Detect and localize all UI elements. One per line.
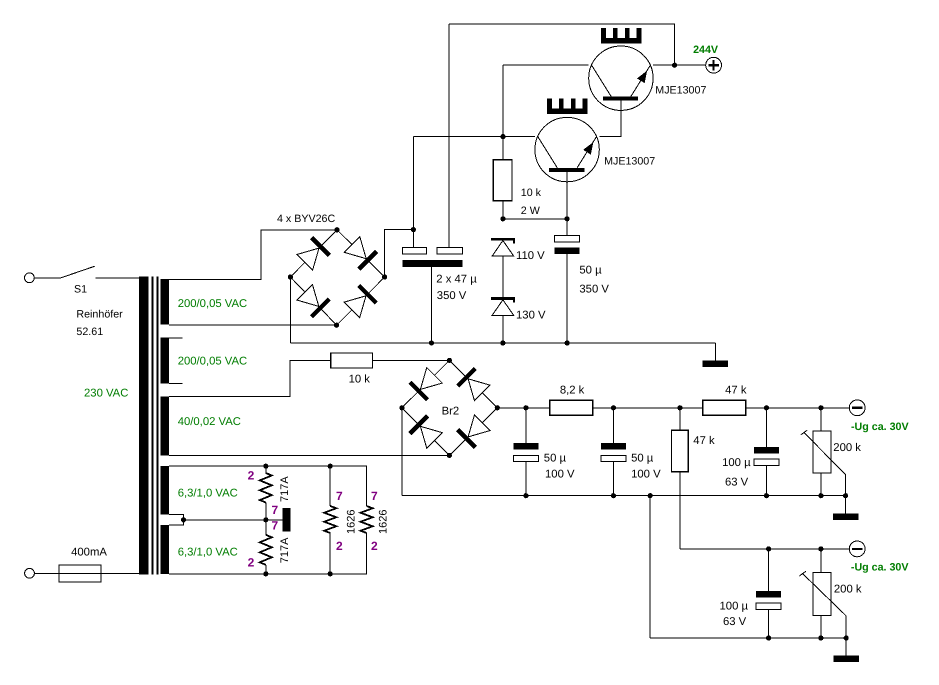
capacitor C5 50u 100V <box>601 443 626 461</box>
node bridge1 top <box>334 227 339 232</box>
wire C4 leads <box>525 408 527 443</box>
wire Br2 edge TR <box>449 360 497 407</box>
diode D2 BYV26C <box>343 236 378 271</box>
wire 10k2W top lead <box>502 137 504 160</box>
wire W2 bottom stub <box>169 382 183 384</box>
svg-text:110 V: 110 V <box>516 250 545 262</box>
svg-text:2: 2 <box>371 539 378 553</box>
terminal -Ug output 2 <box>849 541 865 557</box>
wire W3 top to R 10k <box>169 360 331 396</box>
capacitor C3 50u 350V <box>555 236 580 255</box>
diode D5 Br2 <box>408 366 443 401</box>
wire Br2 edge TL <box>402 360 450 407</box>
wire C6 top lead <box>765 408 767 447</box>
svg-text:6,3/1,0 VAC: 6,3/1,0 VAC <box>178 546 238 558</box>
node rail n4 <box>764 405 769 410</box>
svg-text:2 x 47 µ: 2 x 47 µ <box>436 274 477 286</box>
zener diode ZD2 130V <box>491 297 515 315</box>
heater 1626 right <box>361 506 373 533</box>
node Br2 right <box>495 405 500 410</box>
svg-text:10 k: 10 k <box>349 373 371 385</box>
potentiometer P1 200k <box>801 430 846 475</box>
wire bridge1 minus to ground rail <box>289 277 291 343</box>
wire W1 bottom to bridge1 <box>169 324 337 326</box>
node raw DC node <box>411 227 416 232</box>
svg-text:230 VAC: 230 VAC <box>84 388 128 400</box>
node Br2 top <box>447 358 452 363</box>
svg-text:200/0,05 VAC: 200/0,05 VAC <box>178 298 248 310</box>
transformer core <box>152 277 159 575</box>
svg-text:-Ug ca. 30V: -Ug ca. 30V <box>851 421 909 433</box>
wire R 47k vert to lower section <box>679 472 681 549</box>
ground G3 <box>833 638 859 662</box>
svg-text:Reinhöfer: Reinhöfer <box>76 309 123 321</box>
node caps ground node <box>429 340 434 345</box>
svg-text:717A: 717A <box>279 476 291 502</box>
heatsink for Q1 <box>601 28 641 44</box>
resistor R 10k <box>331 353 373 368</box>
wire P1 bottom lead <box>820 473 822 496</box>
svg-text:2: 2 <box>248 469 255 483</box>
svg-text:200 k: 200 k <box>833 442 861 454</box>
wire 717A upper heater top lead <box>265 466 267 473</box>
node heater bottom node B <box>328 571 333 576</box>
transformer secondary winding W5 bar <box>160 525 169 574</box>
wire bridge1 edge BL <box>290 277 336 325</box>
svg-text:8,2 k: 8,2 k <box>560 384 585 396</box>
node lgnd n1 <box>766 635 771 640</box>
switch S1 <box>34 266 143 278</box>
svg-text:100 V: 100 V <box>631 469 661 481</box>
wire second cap to top rail <box>448 24 450 248</box>
wire Q1 emitter to Q2 collector <box>599 100 621 136</box>
wire Q2 emitter lead <box>566 172 568 219</box>
wire ground rail <box>290 342 715 344</box>
wire raw DC node to cap <box>412 230 414 248</box>
node gnd n5 <box>818 493 823 498</box>
node low n2 <box>818 546 823 551</box>
ground G1 <box>703 343 729 367</box>
svg-text:1626: 1626 <box>346 510 358 534</box>
node heater mid node <box>263 517 268 522</box>
svg-text:2: 2 <box>248 556 255 570</box>
svg-text:2: 2 <box>336 539 343 553</box>
svg-text:200 k: 200 k <box>834 584 862 596</box>
diode D8 Br2 <box>456 414 491 449</box>
fuse 400mA <box>34 565 143 582</box>
svg-text:717A: 717A <box>279 537 291 563</box>
wire P1 top lead <box>820 408 822 431</box>
diode D4 BYV26C <box>343 284 378 319</box>
wire Br2 edge BR <box>449 408 497 456</box>
wire C7 top lead <box>768 549 770 591</box>
wire P2 top lead <box>820 549 822 573</box>
transformer secondary winding W3 bar <box>160 396 169 455</box>
svg-text:7: 7 <box>336 489 343 503</box>
heater 717A lower half <box>260 535 272 565</box>
node heater bottom node A <box>263 571 268 576</box>
wire zener node to emitter node <box>503 218 567 220</box>
wire Br2 edge BL <box>402 408 450 456</box>
wire lower bias rail <box>680 548 849 550</box>
wire 1626 mid heater bottom lead <box>329 533 331 574</box>
wire top rail <box>449 24 675 65</box>
wire W4 top to heaters <box>169 466 367 506</box>
svg-text:350 V: 350 V <box>437 290 467 302</box>
wire R 10k to Br2 top <box>372 359 449 361</box>
node heater top node B <box>328 464 333 469</box>
node base junction <box>500 134 505 139</box>
terminal mains L <box>25 273 35 283</box>
node tap node <box>181 517 186 522</box>
svg-text:7: 7 <box>272 519 279 533</box>
node rail n5 <box>818 405 823 410</box>
svg-text:47 k: 47 k <box>693 435 715 447</box>
svg-text:400mA: 400mA <box>71 547 107 559</box>
wire center tap feed <box>184 519 283 521</box>
node gnd n3 <box>648 493 653 498</box>
svg-text:10 k: 10 k <box>521 187 542 199</box>
node bridge1 right <box>382 274 387 279</box>
svg-text:1626: 1626 <box>378 510 390 534</box>
transformer secondary winding W1 bar <box>160 279 169 325</box>
wire P2 bottom lead <box>820 616 822 638</box>
svg-text:MJE13007: MJE13007 <box>604 156 655 168</box>
svg-text:200/0,05 VAC: 200/0,05 VAC <box>178 355 248 367</box>
wire W3 bottom to Br2 bottom <box>169 454 449 456</box>
wire C6 bottom lead <box>765 466 767 496</box>
transistor Q2 (NPN MJE13007) <box>535 117 599 181</box>
svg-text:244V: 244V <box>693 44 719 56</box>
wire 717A lower heater bottom lead <box>265 565 267 574</box>
heater 1626 left <box>324 506 336 533</box>
node rail n3 <box>677 405 682 410</box>
node gnd n2 <box>611 493 616 498</box>
wire 1626 mid heater top lead <box>329 466 331 506</box>
svg-text:50 µ: 50 µ <box>579 265 602 277</box>
wire bridge1 plus up-over <box>385 230 414 277</box>
svg-text:Br2: Br2 <box>442 406 460 418</box>
node low n1 <box>766 546 771 551</box>
wire cap C3 bottom lead <box>566 254 568 343</box>
terminal -Ug output 1 <box>849 400 865 416</box>
node emitter node <box>565 216 570 221</box>
svg-text:S1: S1 <box>74 283 87 295</box>
node gnd n1 <box>523 493 528 498</box>
wire bridge1 edge BR <box>337 277 385 325</box>
svg-text:63 V: 63 V <box>725 476 749 488</box>
wire lower ground rail <box>650 637 846 639</box>
wire Br2 minus leg <box>401 408 403 496</box>
node C3 ground node <box>565 340 570 345</box>
node lgnd n3 <box>844 635 849 640</box>
diode D6 Br2 <box>456 367 491 402</box>
zener diode ZD1 110V <box>491 238 515 256</box>
wire C5 top lead <box>612 408 614 443</box>
wire W1 top to bridge1 <box>169 230 337 280</box>
node Br2 bottom <box>447 453 452 458</box>
svg-text:7: 7 <box>371 489 378 503</box>
svg-text:4 x BYV26C: 4 x BYV26C <box>277 213 335 225</box>
ground G2 <box>833 496 859 520</box>
node bridge1 left <box>288 274 293 279</box>
wire zener chain bottom <box>502 315 504 343</box>
terminal 244V + <box>706 57 722 73</box>
svg-text:52.61: 52.61 <box>76 326 103 338</box>
capacitor C6 100u 63V <box>754 447 779 466</box>
node Br2 left <box>399 405 404 410</box>
wire Q1 base <box>503 64 589 66</box>
potentiometer P2 200k <box>799 571 846 616</box>
diode D3 BYV26C <box>296 283 331 318</box>
svg-text:63 V: 63 V <box>723 616 747 628</box>
wire bias rail <box>497 407 849 409</box>
svg-text:350 V: 350 V <box>579 284 609 296</box>
wire ground to lower section <box>649 496 651 638</box>
wire C4 bottom lead <box>525 462 527 496</box>
wire 717A heater mid leads <box>265 503 267 535</box>
resistor R 10k 2W <box>493 160 512 201</box>
node lgnd n2 <box>818 635 823 640</box>
wire center tap <box>169 515 183 526</box>
svg-text:2 W: 2 W <box>521 205 541 217</box>
wire raw DC riser <box>412 137 414 230</box>
wire C7 bottom lead <box>768 610 770 638</box>
svg-text:7: 7 <box>272 503 279 517</box>
node 244V output node <box>672 63 677 68</box>
node rail n1 <box>523 405 528 410</box>
wire collector Q1 to 244V terminal <box>653 64 706 66</box>
transformer secondary winding W2 bar <box>160 337 169 383</box>
capacitor C7 100u 63V <box>756 591 781 610</box>
wire C5 bottom lead <box>612 462 614 496</box>
wire bridge1 edge TR <box>337 230 385 277</box>
node zener ground node <box>500 340 505 345</box>
wire P2 wiper lead <box>845 616 847 638</box>
transistor Q1 (NPN MJE13007) <box>589 46 653 110</box>
tube 717A cathode bar <box>283 508 291 531</box>
node zener node <box>500 216 505 221</box>
heatsink for Q2 <box>547 98 587 114</box>
svg-text:100 µ: 100 µ <box>720 601 749 613</box>
node gnd n6 <box>843 493 848 498</box>
svg-text:50 µ: 50 µ <box>631 453 654 465</box>
heater 717A upper half <box>260 473 272 503</box>
diode D1 BYV26C <box>296 236 331 271</box>
wire Q2 base <box>413 136 535 138</box>
svg-text:-Ug ca. 30V: -Ug ca. 30V <box>851 562 909 574</box>
wire bridge1 edge TL <box>290 230 337 277</box>
wire 10k2W bottom lead <box>502 201 504 219</box>
wire Q1 base riser <box>502 65 504 136</box>
transformer secondary winding W4 bar <box>160 466 169 515</box>
svg-text:MJE13007: MJE13007 <box>655 84 706 96</box>
wire bias ground rail <box>402 495 846 497</box>
node gnd n4 <box>764 493 769 498</box>
capacitor C1 C2 2x47u 350V <box>402 248 462 267</box>
resistor R 8,2k <box>550 400 593 415</box>
terminal mains N <box>25 568 35 578</box>
resistor R 47k horizontal <box>703 400 746 415</box>
wire cap C3 top lead <box>566 219 568 236</box>
svg-text:47 k: 47 k <box>725 384 747 396</box>
wire zener interconnect <box>502 256 504 297</box>
svg-text:40/0,02 VAC: 40/0,02 VAC <box>178 416 241 428</box>
diode D7 Br2 <box>408 414 443 449</box>
transformer T1 primary winding bar <box>139 277 149 575</box>
svg-text:100 V: 100 V <box>545 469 575 481</box>
svg-text:100 µ: 100 µ <box>722 457 751 469</box>
svg-text:50 µ: 50 µ <box>544 453 567 465</box>
wire W5 bottom from heaters <box>169 533 367 574</box>
wire caps common to ground rail <box>431 267 433 343</box>
wire R 47k vert top lead <box>679 408 681 430</box>
resistor R 47k vertical <box>672 430 689 472</box>
node bridge1 bottom <box>334 323 339 328</box>
wire W2 top stub <box>169 337 183 339</box>
capacitor C4 50u 100V <box>513 443 538 461</box>
wire P1 wiper lead <box>845 475 847 496</box>
svg-text:6,3/1,0 VAC: 6,3/1,0 VAC <box>178 488 238 500</box>
node rail n2 <box>611 405 616 410</box>
node heater top node A <box>263 464 268 469</box>
svg-text:130 V: 130 V <box>516 310 546 322</box>
